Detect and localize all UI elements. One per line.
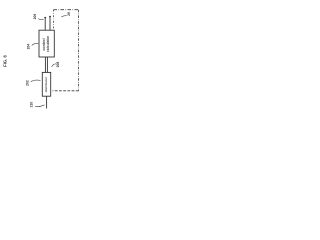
svg-text:calculator: calculator bbox=[46, 35, 50, 52]
wire terminal dot left bbox=[44, 17, 46, 19]
leader for 210 bbox=[35, 105, 45, 107]
leader for 26 bbox=[61, 16, 66, 17]
leader for 208 bbox=[52, 64, 57, 67]
wire terminal dot right bbox=[49, 16, 51, 18]
box U2 (converter) bbox=[42, 72, 50, 96]
dash-dot enclosure top edge bbox=[54, 9, 79, 11]
svg-text:204: 204 bbox=[27, 44, 31, 50]
leader for 204 bbox=[32, 43, 38, 45]
svg-text:202: 202 bbox=[26, 80, 30, 86]
leader for 206 bbox=[38, 19, 43, 20]
box U1 (central calculator) bbox=[39, 30, 54, 57]
wire into box1 (left) bbox=[44, 18, 46, 30]
dash-dot enclosure right edge bbox=[78, 10, 80, 91]
svg-text:208: 208 bbox=[56, 62, 60, 68]
output wire below box U2 bbox=[46, 96, 48, 108]
dash-dot enclosure bottom edge bbox=[53, 90, 79, 92]
bus wire between boxes (left) bbox=[44, 57, 46, 72]
bus wire between boxes (right) bbox=[46, 57, 48, 72]
svg-text:210: 210 bbox=[30, 102, 34, 108]
svg-text:26: 26 bbox=[67, 12, 71, 16]
wire into box1 (right) bbox=[49, 17, 51, 30]
svg-text:206: 206 bbox=[33, 14, 37, 20]
leader for 202 bbox=[31, 80, 41, 82]
dash-dot enclosure left edge segment bbox=[53, 10, 55, 30]
svg-text:distributor: distributor bbox=[44, 76, 48, 92]
svg-text:FIG. 6: FIG. 6 bbox=[3, 55, 8, 67]
